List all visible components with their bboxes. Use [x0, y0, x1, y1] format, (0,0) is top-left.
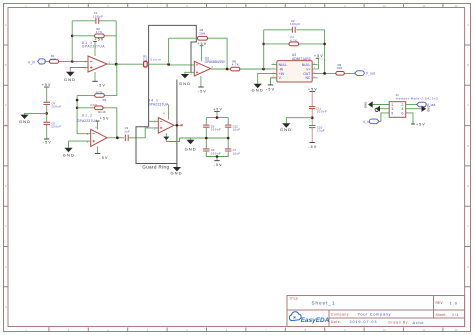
wire pin4 to GND flag — [406, 108, 422, 110]
wire mid rail — [180, 127, 229, 149]
node U3 -IN — [262, 68, 265, 71]
svg-text:OPA656N/250: OPA656N/250 — [205, 60, 225, 64]
wire U1.1 output row — [107, 63, 144, 65]
wire U2 output row — [211, 68, 272, 70]
ground flag left at pin1 — [364, 101, 373, 108]
node top rail — [216, 116, 219, 119]
wire pin5 to V_in flag — [379, 113, 389, 122]
power +5V at J1 — [411, 123, 425, 127]
node U1.1 output — [115, 63, 118, 66]
svg-text:G: G — [5, 265, 7, 269]
svg-text:GND: GND — [185, 146, 196, 151]
node R4 tap — [76, 107, 79, 110]
wire R6 row — [169, 38, 228, 69]
power -5V left bank — [43, 139, 52, 144]
wire bottom rail mid bank — [206, 151, 228, 161]
capacitor C12 10uF — [225, 124, 240, 131]
wire C1 row — [72, 20, 116, 22]
wire C10 to -5V — [311, 128, 313, 143]
svg-text:+IN: +IN — [279, 72, 285, 76]
svg-text:R3: R3 — [103, 98, 107, 102]
svg-text:330: 330 — [337, 66, 342, 70]
svg-text:GND: GND — [252, 88, 263, 93]
ground right bank — [280, 123, 291, 132]
capacitor C9 100nF — [203, 148, 221, 155]
resistor R2 47K — [95, 27, 105, 38]
svg-text:REV:: REV: — [436, 301, 444, 305]
resistor R3 47K — [95, 90, 107, 102]
svg-text:1.0: 1.0 — [450, 301, 458, 306]
svg-text:Sheet_1: Sheet_1 — [312, 301, 335, 306]
ground left bank — [19, 115, 30, 125]
svg-text:+5V: +5V — [314, 54, 323, 58]
capacitor C10 10uF — [309, 125, 325, 132]
ground flag left at pin3 — [375, 106, 380, 112]
ground flag right at pin4 — [422, 106, 431, 112]
power -5V at U2 — [198, 76, 207, 93]
wire feedback right vertical to OUT — [324, 30, 326, 74]
node mid rail left — [205, 137, 208, 140]
wire U4.1 V- to mid rail — [166, 133, 179, 141]
node feedback left / input — [71, 60, 74, 63]
svg-text:NC: NC — [305, 76, 310, 80]
svg-text:OUT: OUT — [303, 72, 310, 76]
guard ring upper trace — [149, 25, 197, 126]
op-amp U2 OPA656N — [191, 57, 225, 76]
svg-text:100nF: 100nF — [211, 128, 221, 132]
node mid bank — [45, 112, 48, 115]
svg-text:+5V: +5V — [95, 38, 104, 42]
svg-text:TITLE:: TITLE: — [290, 296, 299, 300]
svg-text:10M: 10M — [199, 32, 205, 36]
svg-text:+5V: +5V — [213, 108, 222, 112]
net flag V_in at J1 — [363, 119, 379, 124]
svg-text:GND: GND — [280, 127, 291, 132]
svg-text:100pF: 100pF — [290, 22, 300, 26]
wire U4.1 V+ pin — [168, 105, 170, 120]
resistor R1 47K — [49, 54, 58, 63]
wire pin1 to GND flag — [373, 104, 390, 106]
wire U1.2 -in vertical — [77, 95, 91, 133]
svg-text:GND: GND — [179, 81, 190, 86]
ground at mid rail — [185, 138, 196, 151]
svg-text:2019-07-03: 2019-07-03 — [350, 320, 377, 324]
wire pin6 to +5V — [406, 113, 413, 124]
wire to GND left — [25, 113, 47, 114]
svg-text:GND: GND — [63, 152, 74, 157]
connector J1 Header-Male-2.54_3x2 — [389, 93, 438, 117]
svg-text:EasyEDA: EasyEDA — [301, 317, 330, 324]
wire pin3 to GND flag — [380, 108, 389, 110]
pin end marker — [181, 124, 183, 126]
wire top rail mid bank — [206, 118, 228, 125]
svg-text:47K: 47K — [96, 30, 102, 34]
power +5V at U1.1 — [93, 38, 104, 56]
svg-text:R4 1K: R4 1K — [98, 110, 106, 114]
svg-text:V+: V+ — [306, 67, 310, 71]
svg-text:Date:: Date: — [331, 320, 341, 324]
ground at guard ring — [171, 164, 182, 176]
wire R5 to U2 -in — [147, 63, 194, 66]
pin stubs U3 — [272, 65, 318, 78]
power +5V at U2 — [197, 42, 206, 62]
node U1.2 output — [116, 136, 119, 139]
svg-text:GND: GND — [19, 119, 30, 124]
title block — [287, 296, 465, 328]
power -5V mid bank — [214, 161, 223, 167]
svg-text:1/1: 1/1 — [452, 313, 459, 317]
wire feedback right vertical — [115, 21, 117, 64]
svg-text:Company:: Company: — [331, 313, 350, 317]
node right bank mid — [311, 116, 314, 119]
svg-text:Sheet:: Sheet: — [436, 313, 447, 317]
svg-text:C: C — [467, 103, 469, 107]
svg-text:B: B — [5, 63, 7, 67]
resistor R6 10M — [198, 28, 208, 40]
wire U1.2 output row — [107, 128, 158, 138]
svg-text:V-: V- — [279, 76, 282, 80]
power -5V at U1.1 — [92, 72, 105, 88]
svg-text:+5V: +5V — [100, 117, 109, 121]
wire R1 to op-amp U1.1 -in — [59, 60, 88, 62]
power -5V at U1.2 — [95, 146, 108, 159]
svg-text:G: G — [467, 265, 469, 269]
svg-text:D: D — [467, 144, 469, 148]
svg-text:U1.2: U1.2 — [82, 113, 92, 117]
capacitor C11 100nF — [309, 106, 327, 113]
node R7 row left — [262, 43, 265, 46]
wire C11 to junction — [311, 109, 313, 126]
svg-text:NULL: NULL — [302, 63, 311, 67]
svg-text:E: E — [5, 184, 7, 188]
node R2 row left — [71, 35, 74, 38]
svg-text:100pF: 100pF — [93, 14, 103, 18]
wire OUT row — [318, 72, 355, 74]
svg-text:A: A — [5, 23, 7, 27]
svg-text:100nF: 100nF — [317, 110, 327, 114]
svg-text:1uF: 1uF — [124, 130, 130, 134]
svg-text:4.7K: 4.7K — [232, 63, 239, 67]
node U2 output — [226, 68, 229, 71]
guard ring box — [136, 80, 177, 164]
svg-text:Guard Ring: Guard Ring — [142, 165, 169, 170]
node U4.1 output on guard — [176, 124, 179, 127]
svg-text:GND: GND — [364, 102, 368, 108]
resistor R7 4.7K — [289, 35, 299, 45]
wire R3 row — [77, 64, 117, 95]
svg-text:B: B — [467, 63, 469, 67]
resistor R4 1K (DNP) — [91, 103, 106, 114]
ground arrow at U4.1 V- — [163, 137, 169, 140]
power +5V at U3 V+ — [314, 54, 323, 69]
svg-text:6: 6 — [402, 111, 404, 115]
wire R7 row — [264, 43, 325, 45]
svg-text:+5V: +5V — [42, 83, 51, 87]
wire R4 row — [77, 108, 117, 138]
svg-text:Ache: Ache — [413, 321, 424, 325]
svg-text:Your Company: Your Company — [358, 311, 391, 316]
IC U3 AD8671ARZ — [273, 53, 316, 82]
svg-text:+5V: +5V — [308, 88, 317, 92]
net flag V_out (stage output) — [355, 71, 375, 76]
net flag V_out at J1 — [417, 102, 436, 107]
svg-text:100nF: 100nF — [51, 125, 61, 129]
ground at U1.2 +in — [63, 141, 91, 157]
svg-text:D: D — [5, 124, 7, 128]
svg-text:+5V: +5V — [197, 42, 206, 46]
svg-text:5: 5 — [391, 111, 393, 115]
wire C4 to C5 — [46, 105, 48, 123]
svg-text:-IN: -IN — [279, 67, 284, 71]
resistor R5 52.3ohm — [143, 54, 161, 67]
capacitor C4 100nF — [43, 101, 61, 108]
ground at U2 +in — [179, 72, 194, 86]
svg-text:+5V: +5V — [416, 123, 425, 127]
net flag V_in (left input) — [28, 59, 45, 65]
wire C2 row — [264, 29, 325, 31]
node U3 OUT — [323, 72, 326, 75]
svg-text:100nF: 100nF — [51, 105, 61, 109]
resistor R8 4.7K — [231, 59, 240, 70]
svg-text:100nF: 100nF — [211, 151, 221, 155]
node R3 tap — [76, 99, 79, 102]
resistor R9 330 — [336, 63, 344, 75]
capacitor C2 100pF — [290, 19, 300, 33]
svg-text:OPA2227UA: OPA2227UA — [148, 103, 169, 107]
wire pin2 to V_out flag — [406, 104, 417, 106]
svg-text:Drawn By:: Drawn By: — [389, 321, 410, 325]
wire R2 row — [72, 35, 116, 37]
node R6 feedback tap — [167, 63, 170, 66]
op-amp U1.1 OPA2227UA — [82, 41, 111, 72]
svg-text:NULL: NULL — [279, 63, 288, 67]
wire to GND right bank — [286, 118, 312, 124]
svg-text:OPA2227UA: OPA2227UA — [82, 45, 105, 49]
svg-text:10uF: 10uF — [317, 129, 325, 133]
wire C2/R7 feedback left vertical — [263, 30, 265, 69]
op-amp U1.2 OPA2227UA — [77, 113, 107, 146]
svg-text:V_in: V_in — [363, 120, 370, 124]
svg-text:GND: GND — [427, 106, 431, 112]
svg-text:GND: GND — [64, 77, 75, 82]
svg-text:E: E — [467, 184, 469, 188]
wire U4.1 output — [174, 124, 182, 126]
power +5V right bank — [308, 88, 317, 107]
svg-text:C: C — [5, 103, 7, 107]
node R7 row right — [323, 43, 326, 46]
ground at U3 +IN — [252, 73, 277, 92]
wire U4.1 -in stub — [149, 120, 159, 122]
wire V_in to R1 — [44, 60, 49, 62]
power +5V at U1.2 — [96, 117, 109, 130]
op-amp U4.1 OPA2227UA — [148, 99, 179, 134]
power -5V at U3 V- — [266, 78, 277, 92]
power +5V left bank — [42, 83, 51, 102]
svg-text:H: H — [5, 305, 7, 309]
svg-text:10uF: 10uF — [233, 128, 241, 132]
EasyEDA logo — [289, 312, 329, 324]
node mid rail right — [227, 137, 230, 140]
capacitor C1 100pF — [93, 11, 103, 24]
svg-text:10uF: 10uF — [233, 151, 241, 155]
wire C5 to -5V — [46, 125, 48, 140]
capacitor C3 series — [124, 126, 130, 141]
svg-text:OPA2227UA: OPA2227UA — [77, 119, 98, 123]
capacitor C7 10uF — [225, 148, 240, 155]
wire R6 feedback left vertical — [168, 38, 170, 64]
svg-text:V_out: V_out — [366, 72, 375, 76]
node bottom rail — [216, 155, 219, 158]
capacitor C6 100nF — [203, 124, 221, 131]
wire feedback left vertical — [71, 21, 73, 62]
svg-text:GND: GND — [171, 171, 182, 176]
svg-text:A: A — [467, 23, 469, 27]
capacitor C5 100nF — [43, 121, 61, 128]
power -5V right bank — [308, 143, 317, 150]
svg-text:Header Male-2.54_3x3: Header Male-2.54_3x3 — [396, 97, 438, 101]
ground at U1.1 +in — [64, 68, 88, 83]
svg-text:V_in: V_in — [28, 61, 35, 65]
power +5V mid bank — [213, 108, 222, 118]
